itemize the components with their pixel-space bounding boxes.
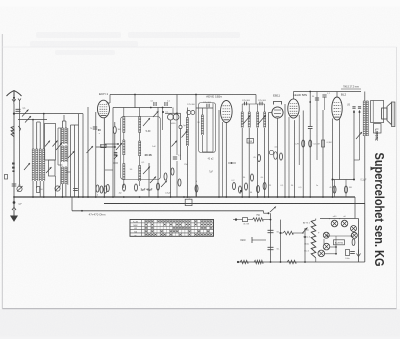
capacitor C15 (173, 156, 177, 158)
switch table X marks (145, 220, 147, 222)
wire IF2 c (212, 103, 214, 152)
coil L2a upper (61, 128, 63, 144)
output top rail (294, 91, 362, 93)
coil L1b (36, 149, 38, 181)
IF can box 2 (199, 103, 216, 153)
rail drop x135 (134, 95, 136, 109)
wire tie g2c (58, 164, 62, 166)
wire box down (55, 176, 57, 197)
wire osc vert2 (74, 125, 76, 197)
resistor R6 (195, 185, 198, 192)
page top faint edge (2, 46, 396, 48)
node tube5 top (353, 111, 355, 113)
IF1 vert b (139, 108, 141, 117)
resistor R11 (164, 173, 167, 180)
coil L2a lower (61, 167, 63, 184)
paper area below bottom edge (0, 309, 400, 339)
aux terminal (18, 99, 21, 104)
node y179 (332, 179, 334, 181)
switch S1a (22, 110, 29, 117)
node x305 (304, 236, 306, 238)
rail drop left (109, 95, 111, 104)
capacitor C324 (322, 94, 326, 96)
power right rail (355, 218, 359, 220)
IF1 top plate (113, 107, 172, 109)
page left border (1, 34, 3, 309)
trimmer arrow T4 (56, 143, 62, 150)
coil La antenna (11, 127, 14, 137)
power wires inner (327, 235, 351, 237)
wire x323 (322, 110, 324, 197)
wire input row 1 (14, 113, 83, 115)
wire y163 (113, 162, 118, 164)
power top wire (320, 218, 355, 220)
resistor R21 (280, 153, 283, 160)
shield box small (49, 160, 56, 176)
node v2 (225, 196, 227, 198)
capacitor antenna (16, 108, 21, 110)
node b1 (32, 196, 34, 198)
coil L2a mid (61, 146, 63, 162)
capacitor C125c (259, 102, 261, 106)
wire x359 (359, 110, 361, 160)
IF2 bottom lead (202, 151, 213, 153)
wire x114.8 (114, 122, 116, 126)
resistor R10 (157, 183, 160, 190)
IF3 arrow1 (243, 116, 251, 125)
tube V3 EB11 (272, 102, 283, 119)
coil L3 (186, 118, 188, 147)
resistor R25 (333, 186, 336, 193)
coil L2b lower (65, 167, 67, 184)
wire x58 (57, 128, 59, 165)
capacitor C70 (93, 126, 97, 128)
coil IF3b1 (257, 112, 259, 128)
ground symbol (11, 197, 17, 221)
tube V5 leads (332, 119, 334, 198)
power junction dots (326, 235, 328, 237)
wire x88 (87, 107, 89, 197)
wires L1 tops (32, 120, 34, 149)
wire x149 (148, 163, 150, 197)
trimmer arrow T1b (53, 141, 58, 147)
tube V3 leads (269, 112, 272, 114)
coil IF1a-3 (123, 164, 125, 180)
wire x93 (95, 112, 97, 197)
tube V4 top lead (293, 92, 295, 99)
transformer TR out a (363, 101, 365, 136)
supply bus 2 (104, 203, 365, 205)
switch table column lines (141, 220, 143, 237)
node x310 (309, 91, 311, 93)
wire x310 (309, 92, 311, 127)
resistor R3 (96, 185, 99, 192)
wire gl1 (236, 219, 243, 221)
coil choke3 (287, 260, 296, 264)
node c1 (62, 196, 64, 198)
node v3 (268, 196, 270, 198)
wire x196b (195, 108, 197, 197)
wire x303 (302, 111, 304, 198)
wire x354 (353, 110, 355, 180)
terminal gl (235, 218, 237, 220)
resistor R15 (251, 174, 254, 181)
switch table frame (130, 220, 214, 237)
resistor R12 (171, 168, 174, 175)
filter cap lead B (280, 220, 282, 262)
lamp F3 (351, 226, 357, 232)
coil L1a (32, 149, 34, 181)
terminal mains (237, 261, 239, 263)
wire x162 (162, 108, 164, 131)
coil IF2 (201, 115, 203, 135)
capacitor C354 (352, 106, 355, 108)
node row1 (112, 196, 114, 198)
coil L1c (39, 149, 41, 181)
capacitor C125a (206, 104, 208, 108)
wire x170 (170, 120, 172, 197)
coil IF1a-2 (123, 140, 125, 155)
node L1 top (43, 113, 45, 115)
switch S6 (302, 228, 308, 234)
wire L3 (186, 108, 188, 118)
wire gl2 (263, 219, 271, 221)
ground bus (14, 196, 356, 198)
wire x324 (324, 97, 326, 110)
IF1 arrow2 (116, 143, 122, 150)
wire x158 (157, 108, 159, 198)
speaker lead (376, 133, 378, 139)
potentiometer P2 (55, 186, 60, 191)
wire x173 (172, 108, 174, 114)
label mark left (12, 163, 15, 173)
shield box L1 (45, 124, 56, 161)
transformer TR leads (315, 219, 317, 221)
coil L2b mid (65, 146, 67, 162)
IF3 verts (241, 104, 243, 112)
resistor R20 (263, 182, 266, 189)
capacitor C4-6 (274, 152, 278, 160)
speaker frame (371, 101, 384, 123)
resistor R5 (104, 186, 107, 193)
rail drop x196 (195, 95, 197, 109)
capacitor Ctop2 (164, 102, 166, 106)
wire x180 (180, 113, 182, 125)
node x219 (218, 196, 220, 198)
rail drop right end (255, 95, 257, 105)
mains wire bottom (238, 261, 365, 263)
switch S2 (150, 177, 156, 184)
page bottom border (2, 308, 396, 310)
arrow IFtop (153, 111, 159, 117)
wire tie g2d (66, 171, 71, 173)
resistor R4 (100, 186, 103, 193)
capacitor C125b (243, 102, 245, 106)
tube V2 stem (222, 122, 224, 197)
coil IF1a-1 (123, 117, 125, 133)
IF2 top lead (196, 107, 213, 109)
AVC line 47+470 ohm (72, 210, 264, 212)
capacitor CF1 (268, 229, 274, 231)
capacitor Ctop1 (153, 102, 155, 106)
output top rail 2 (341, 88, 361, 90)
IF3 top join (242, 103, 264, 105)
wire y163b (228, 162, 236, 164)
node gl (268, 212, 270, 214)
antenna terminal (12, 99, 16, 104)
resistor R8 (123, 184, 126, 191)
lamp F5 (351, 232, 357, 238)
switch aux (18, 126, 21, 129)
trimmer cup (101, 144, 106, 147)
resistor R13 (178, 179, 181, 186)
node rail (134, 94, 136, 96)
trimmer arrow T1 (45, 141, 50, 147)
trimmer arrow T5 (68, 151, 75, 158)
wire x317 (316, 92, 318, 161)
wires L2 bottoms (61, 184, 63, 197)
lamp F2 (341, 220, 348, 227)
wires L1 bottoms (32, 181, 34, 197)
mark arrow x115 (114, 152, 117, 155)
wire IF2 b (206, 108, 208, 152)
coil choke primary (283, 231, 293, 235)
coil IF3a1 (241, 112, 243, 128)
node gl3 (270, 219, 272, 221)
node gnd (13, 196, 15, 198)
resistor R26 (345, 186, 348, 193)
marker triangle (371, 167, 375, 171)
wire grid x83 (82, 114, 84, 197)
label 295 box (247, 139, 254, 144)
resistor 750 (253, 218, 264, 222)
bus2 end right (364, 204, 366, 263)
IF1 mid wire (105, 143, 118, 145)
node v1 (95, 196, 97, 198)
capacitor C50c (269, 150, 273, 154)
ghost text impression top (30, 32, 240, 55)
node antenna junction (13, 113, 15, 115)
wire osc vert3 (78, 114, 80, 197)
tube V2 (221, 101, 233, 123)
filter cap lead A (270, 213, 272, 262)
wire x285 (284, 104, 286, 197)
IF1 arrow1 (143, 118, 150, 126)
resistor R16 (233, 182, 236, 189)
transformer TR main (311, 220, 316, 258)
resistor R22 (302, 140, 305, 147)
wire y160 (354, 159, 360, 161)
wire y147 (96, 146, 115, 148)
rail drop x177 (176, 95, 178, 114)
wire aux down (19, 103, 21, 186)
coil L2b upper (65, 128, 67, 144)
coil IF1b-1 (139, 117, 141, 133)
wire IF2 a (201, 108, 203, 115)
power mid wire (335, 236, 337, 242)
wire tie g2b (58, 127, 61, 129)
wires L2 tops (61, 121, 63, 128)
speaker cone (382, 102, 395, 127)
antenna (7, 91, 22, 101)
arrow L3 (182, 131, 188, 138)
coil IF1b-2 (139, 141, 141, 156)
arrow mid (172, 141, 178, 147)
anode rail (110, 94, 256, 96)
capacitor CP1 (346, 250, 350, 256)
wire antenna down (13, 104, 15, 197)
coil L1d (43, 149, 45, 181)
junction dot AVC (81, 210, 83, 212)
connector REW (251, 237, 253, 243)
IF can box 1 (121, 117, 161, 180)
wire x219 (218, 110, 220, 197)
AVC line left drop (71, 197, 73, 211)
capacitor CP2 (350, 251, 355, 253)
switch S4 (356, 132, 362, 139)
node v5 (322, 196, 324, 198)
resistor Regl box (185, 199, 192, 205)
wire x242 down (241, 128, 243, 198)
switch S1b (25, 116, 31, 123)
capacitor C2 (37, 187, 40, 193)
trimmer arrow T6 (87, 146, 94, 153)
tube V1 ECH1 (98, 100, 110, 118)
wire primary tap (280, 232, 282, 234)
trimmer arrow T3 (24, 163, 30, 170)
switch S5 (270, 207, 276, 213)
coil choke1 (240, 260, 248, 264)
IF1 vert a (123, 108, 125, 117)
coil IF3a2 (248, 112, 250, 128)
coil choke2 (254, 260, 263, 264)
resistor R27 (352, 239, 355, 245)
capacitor C5p (179, 125, 182, 128)
resistor R9 (135, 184, 138, 191)
capacitor C317 (315, 97, 319, 99)
resistor R24 box (322, 140, 325, 147)
resistor R19 (257, 185, 260, 192)
antenna earth sym (357, 250, 361, 257)
wire tie g2a (71, 124, 79, 126)
resistor R23 (309, 140, 312, 147)
wire x257 down (257, 128, 259, 198)
lamp F1 (331, 220, 338, 227)
coil IF3b2 (264, 112, 266, 128)
node r row (240, 190, 242, 192)
wire x113 (112, 108, 114, 198)
IF1 arrow3 (143, 167, 150, 175)
lamp F7 (318, 250, 325, 257)
capacitor Cleft edge (5, 175, 8, 180)
wire y179 (333, 179, 355, 181)
capacitor C gnd left (12, 183, 17, 185)
trimmer circles 125-300 (187, 111, 191, 115)
resistor R7 (106, 184, 109, 191)
wire x264 down (264, 128, 266, 198)
node w2 (32, 119, 34, 121)
node bw (270, 261, 272, 263)
capacitor circles C5000 (168, 114, 174, 120)
wire osc vert1 (70, 125, 72, 197)
resistor R14 (258, 154, 261, 161)
padder cap (73, 188, 78, 190)
switch S3 (161, 181, 167, 188)
bus end right (354, 197, 356, 219)
tube V1 stem (103, 118, 105, 197)
resistor R18 (245, 183, 248, 190)
resistor R17 (239, 186, 242, 193)
node v4 (288, 196, 290, 198)
lamp F4 (323, 232, 329, 238)
wire x177b (176, 113, 178, 155)
page right border (396, 47, 398, 309)
label BL2BT34 (334, 240, 345, 245)
potentiometer P1 (17, 186, 22, 191)
capacitor C310 (308, 126, 313, 128)
IF3 arrow2 (258, 116, 266, 125)
coil IF1b-3 (139, 166, 141, 182)
resistor R1M (113, 126, 116, 133)
speaker magnet box (374, 124, 382, 134)
wire x249 down (248, 128, 250, 198)
wire x305 (304, 228, 306, 262)
tube V4 (288, 99, 299, 118)
tube V4 leads (288, 117, 290, 197)
coil wall lines (59, 128, 61, 185)
tube V5 (332, 97, 342, 120)
wire x150 top (150, 107, 152, 109)
rectifier Gl block (243, 218, 248, 222)
trimmer arrow T2 (46, 167, 52, 173)
wire input row 2 (18, 119, 47, 121)
tube V5 top lead (336, 92, 338, 97)
lamp F6 (323, 243, 330, 250)
switch table row lines (130, 222, 214, 224)
capacitor CF2 (268, 246, 274, 248)
transformer TR out lead (364, 92, 366, 102)
wire y113 seg (165, 112, 181, 114)
